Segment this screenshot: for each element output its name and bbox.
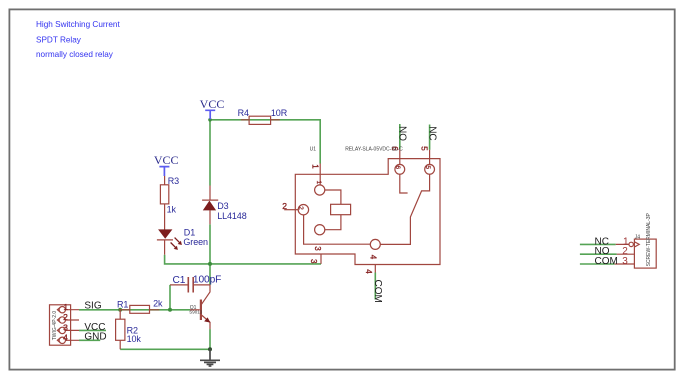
svg-text:1: 1 <box>310 164 319 169</box>
svg-text:5: 5 <box>424 166 431 170</box>
svg-text:RELAY-SLA-05VDC-SL-C: RELAY-SLA-05VDC-SL-C <box>345 146 403 152</box>
svg-text:10R: 10R <box>271 108 288 118</box>
svg-text:VCC: VCC <box>200 97 225 111</box>
svg-text:C1: C1 <box>173 275 186 286</box>
svg-text:U1: U1 <box>310 146 317 152</box>
svg-text:100pF: 100pF <box>193 275 221 286</box>
svg-text:COM: COM <box>595 256 618 267</box>
svg-text:normally closed relay: normally closed relay <box>36 50 114 59</box>
svg-text:VCC: VCC <box>154 153 179 167</box>
svg-text:D1: D1 <box>184 227 195 237</box>
svg-text:GND: GND <box>84 332 106 343</box>
svg-text:R4: R4 <box>238 108 249 118</box>
svg-text:5: 5 <box>419 146 428 151</box>
svg-text:4: 4 <box>364 269 373 274</box>
svg-text:NO: NO <box>397 126 408 141</box>
svg-text:COM: COM <box>372 280 383 303</box>
svg-text:SCREW-TERMINAL-3P: SCREW-TERMINAL-3P <box>646 212 652 266</box>
svg-text:2: 2 <box>282 201 287 211</box>
svg-text:SIG: SIG <box>84 301 101 312</box>
svg-text:3: 3 <box>309 259 318 264</box>
svg-text:TWIG-4P-2.0: TWIG-4P-2.0 <box>52 311 58 341</box>
svg-text:Green: Green <box>183 237 208 247</box>
svg-text:10k: 10k <box>127 334 142 344</box>
svg-text:D3: D3 <box>217 201 228 211</box>
svg-text:3: 3 <box>63 323 68 333</box>
svg-text:LL4148: LL4148 <box>217 211 247 221</box>
svg-text:1: 1 <box>315 181 322 185</box>
svg-text:2: 2 <box>297 206 304 210</box>
svg-text:R1: R1 <box>117 299 128 309</box>
svg-text:S9013: S9013 <box>189 310 203 315</box>
svg-text:6: 6 <box>394 166 401 170</box>
svg-text:3: 3 <box>622 256 628 267</box>
svg-text:1: 1 <box>63 302 68 312</box>
svg-text:J4: J4 <box>635 235 641 241</box>
svg-text:4: 4 <box>63 333 68 343</box>
svg-text:4: 4 <box>368 255 377 260</box>
svg-text:NC: NC <box>426 126 437 140</box>
svg-text:SPDT Relay: SPDT Relay <box>36 35 82 44</box>
svg-text:High Switching Current: High Switching Current <box>36 20 120 29</box>
svg-text:R3: R3 <box>168 176 179 186</box>
svg-text:1k: 1k <box>167 205 177 215</box>
svg-text:2: 2 <box>63 312 68 322</box>
svg-text:2k: 2k <box>153 299 163 309</box>
svg-text:3: 3 <box>313 246 322 251</box>
